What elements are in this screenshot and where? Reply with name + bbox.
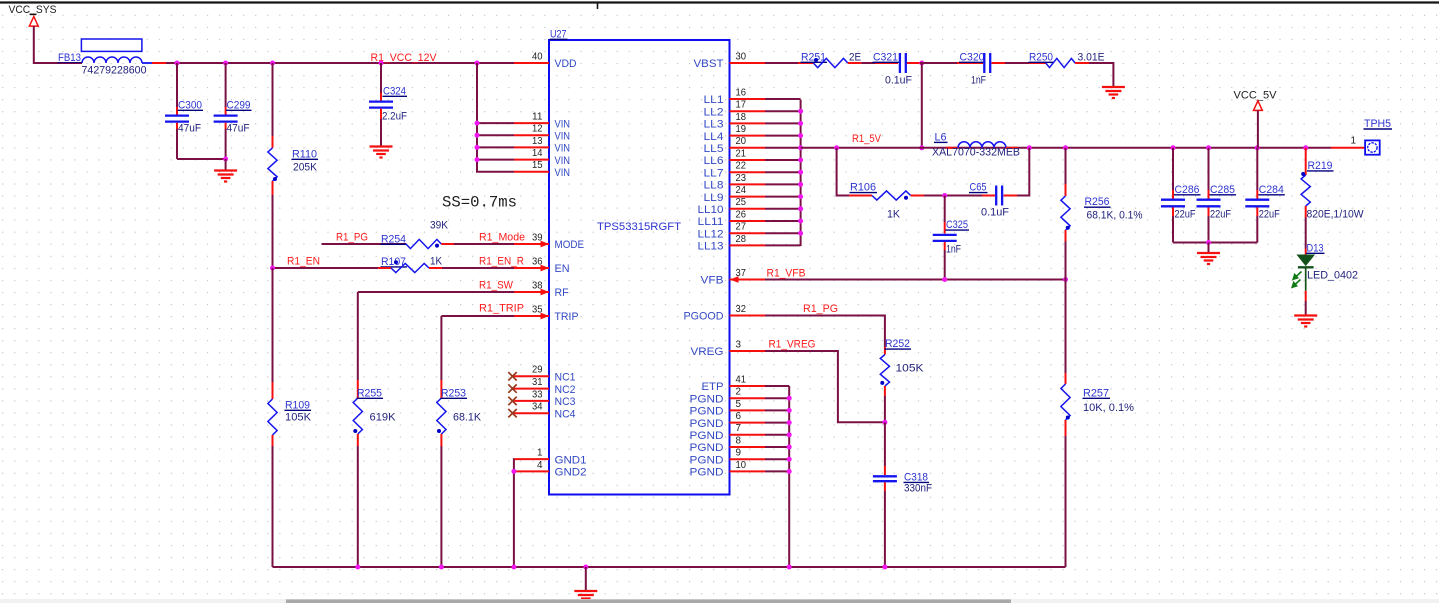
svg-text:C284: C284 <box>1259 184 1284 196</box>
svg-text:39: 39 <box>532 231 543 243</box>
wire net R1_VCC_12V <box>166 62 514 64</box>
svg-text:D13: D13 <box>1307 242 1324 254</box>
svg-text:R1_EN: R1_EN <box>287 256 320 268</box>
wire to ground <box>225 159 227 171</box>
svg-text:68.1K: 68.1K <box>453 412 482 424</box>
svg-text:LED_0402: LED_0402 <box>1307 269 1358 281</box>
wire R251 to C321 <box>861 62 875 64</box>
svg-text:LL8: LL8 <box>704 180 724 192</box>
U27 pin 27 LL12 <box>698 221 766 241</box>
svg-text:38: 38 <box>532 279 543 291</box>
junction dots output rail <box>1171 145 1176 150</box>
svg-text:LL10: LL10 <box>698 204 724 216</box>
LED emission arrows <box>1292 272 1301 288</box>
junction R1_EN at R110/R109 <box>270 266 275 271</box>
svg-text:0.1uF: 0.1uF <box>981 207 1009 219</box>
resistor R254 <box>381 220 455 249</box>
U27 pin 17 LL2 <box>704 99 766 119</box>
capacitor C318 <box>873 422 932 567</box>
U27 pin 23 LL8 <box>704 172 766 192</box>
resistor R255 <box>353 380 396 567</box>
resistor R257 <box>1061 280 1134 568</box>
svg-text:LL11: LL11 <box>698 216 724 228</box>
svg-text:R1_VREG: R1_VREG <box>769 338 816 350</box>
svg-text:1K: 1K <box>430 256 443 268</box>
junction C299 bottom <box>223 157 228 162</box>
wire VCC_SYS to FB13 <box>34 26 58 63</box>
svg-text:11: 11 <box>532 111 543 123</box>
svg-text:R250: R250 <box>1029 51 1053 63</box>
U27 pin 39 MODE <box>514 231 584 251</box>
svg-text:29: 29 <box>532 364 543 376</box>
junction R256 top <box>1063 145 1068 150</box>
svg-text:1nF: 1nF <box>971 75 986 87</box>
ferrite bead FB13 <box>58 39 167 77</box>
svg-text:LL9: LL9 <box>704 192 724 204</box>
U27 pin 1 GND1 <box>514 447 587 467</box>
junction C325 bottom <box>942 277 947 282</box>
svg-text:7: 7 <box>736 422 742 434</box>
wire GND1/GND2 to bottom rail <box>513 459 515 567</box>
svg-text:R1_VFB: R1_VFB <box>767 268 806 280</box>
U27 pin 16 LL1 <box>704 86 766 106</box>
svg-text:U27: U27 <box>550 28 567 40</box>
wire net R1_PG <box>765 316 885 348</box>
svg-text:VIN: VIN <box>555 167 571 179</box>
svg-text:R1_PG: R1_PG <box>336 232 368 244</box>
svg-text:36: 36 <box>532 255 543 267</box>
U27 pin 11 VIN <box>514 111 570 131</box>
ground under output caps <box>1197 253 1220 264</box>
wire net R1_VREG <box>765 351 885 422</box>
U27 pin 40 VDD <box>514 50 577 70</box>
capacitor C325 <box>933 196 969 279</box>
svg-text:C299: C299 <box>227 99 251 111</box>
svg-text:74279228600: 74279228600 <box>82 65 147 77</box>
svg-text:33: 33 <box>532 388 543 400</box>
svg-text:330nF: 330nF <box>904 483 932 495</box>
svg-text:28: 28 <box>736 233 747 245</box>
svg-text:C285: C285 <box>1210 184 1235 196</box>
wire net R1_TRIP horizontal <box>441 315 514 317</box>
svg-text:VFB: VFB <box>701 275 724 287</box>
svg-text:18: 18 <box>736 111 747 123</box>
svg-text:PGND: PGND <box>690 393 724 405</box>
U27 pin 7 PGND <box>690 422 766 442</box>
U27 pin 22 LL7 <box>704 160 766 180</box>
junction dots bottom rail <box>355 565 360 570</box>
svg-text:VREG: VREG <box>691 346 724 358</box>
wire junction to C320 <box>920 62 957 64</box>
wire net R1_SW horizontal <box>358 291 514 293</box>
svg-text:105K: 105K <box>896 363 925 375</box>
capacitor C286 <box>1161 148 1201 243</box>
resistor R250 <box>1029 51 1105 67</box>
wire net R1_Mode <box>454 243 514 245</box>
resistor R219 <box>1301 148 1364 249</box>
svg-text:C65: C65 <box>970 182 987 194</box>
U27 pin 29 NC1 <box>513 364 576 384</box>
wire to ground <box>1208 243 1210 254</box>
U27 pin 35 TRIP <box>514 303 579 323</box>
svg-text:SS=0.7ms: SS=0.7ms <box>442 194 517 212</box>
svg-text:40: 40 <box>532 50 543 62</box>
wire C300/C299 bottoms <box>177 158 226 160</box>
svg-text:R1_EN_R: R1_EN_R <box>479 256 524 268</box>
wire VBST to R251 <box>765 62 798 64</box>
capacitor C299 <box>214 63 252 159</box>
U27 pin 20 LL5 <box>704 135 766 155</box>
svg-text:105K: 105K <box>285 412 312 424</box>
svg-text:LL2: LL2 <box>704 106 724 118</box>
U27 pin 33 NC3 <box>513 388 576 408</box>
top window border line <box>0 1 1439 3</box>
wire R106 to C65 <box>924 195 982 197</box>
U27 pin 2 PGND <box>690 386 766 406</box>
svg-text:VIN: VIN <box>555 155 571 167</box>
U27 pin 24 LL9 <box>704 184 766 204</box>
svg-text:39K: 39K <box>430 220 449 232</box>
junction R1_5V / R106 branch <box>834 145 839 150</box>
svg-text:R1_PG: R1_PG <box>803 303 838 315</box>
svg-text:VIN: VIN <box>555 130 571 142</box>
svg-text:619K: 619K <box>370 412 397 424</box>
svg-text:820E,1/10W: 820E,1/10W <box>1307 208 1365 220</box>
U27 pin 21 LL6 <box>704 147 766 167</box>
wire bottom ground rail <box>273 566 1066 568</box>
svg-text:XAL7070-332MEB: XAL7070-332MEB <box>932 147 1020 159</box>
svg-text:4: 4 <box>537 459 543 471</box>
svg-text:LL12: LL12 <box>698 228 724 240</box>
svg-text:MODE: MODE <box>555 239 585 251</box>
svg-text:R255: R255 <box>357 387 382 399</box>
svg-text:R110: R110 <box>292 148 317 160</box>
power port VCC_5V <box>1234 89 1278 148</box>
wire LED to ground <box>1305 301 1307 316</box>
U27 pin 9 PGND <box>690 447 766 467</box>
svg-text:15: 15 <box>532 159 543 171</box>
U27 pin 5 PGND <box>690 398 766 418</box>
svg-text:TPH5: TPH5 <box>1364 118 1391 130</box>
svg-text:LL4: LL4 <box>704 131 724 143</box>
junction R252/VREG/C318 <box>882 420 887 425</box>
svg-text:17: 17 <box>736 99 747 111</box>
wire LL pin bus <box>800 100 802 246</box>
U27 pin 19 LL4 <box>704 123 766 143</box>
svg-text:2: 2 <box>736 386 742 398</box>
capacitor C285 <box>1197 148 1237 243</box>
horizontal scrollbar <box>0 599 1439 603</box>
svg-text:TRIP: TRIP <box>555 311 579 323</box>
resistor R251 <box>798 51 861 67</box>
resistor R110 <box>268 63 318 268</box>
wire LED cathode lead <box>1305 291 1307 301</box>
svg-text:3: 3 <box>736 338 742 350</box>
capacitor C65 <box>969 182 1017 219</box>
U27 pin 32 PGOOD <box>684 303 766 323</box>
capacitor C300 <box>165 63 203 159</box>
svg-text:PGND: PGND <box>690 418 724 430</box>
svg-text:R257: R257 <box>1083 387 1109 399</box>
svg-text:30: 30 <box>736 50 747 62</box>
resistor R256 <box>1061 148 1143 280</box>
svg-text:1: 1 <box>537 447 543 459</box>
U27 pin 18 LL3 <box>704 111 766 131</box>
svg-text:3.01E: 3.01E <box>1078 51 1105 63</box>
svg-text:L6: L6 <box>935 131 947 143</box>
svg-text:LL1: LL1 <box>704 94 724 106</box>
wire down to R106 <box>837 148 849 196</box>
U27 pin 13 VIN <box>514 135 570 155</box>
svg-text:LL3: LL3 <box>704 119 724 131</box>
svg-text:R252: R252 <box>885 338 910 350</box>
svg-text:C321: C321 <box>873 51 898 63</box>
svg-text:13: 13 <box>532 135 543 147</box>
svg-text:2.2uF: 2.2uF <box>382 111 407 123</box>
U27 pin 28 LL13 <box>698 233 766 253</box>
svg-text:R253: R253 <box>441 387 466 399</box>
svg-text:FB13: FB13 <box>58 52 81 64</box>
svg-text:14: 14 <box>532 147 543 159</box>
svg-text:16: 16 <box>736 86 747 98</box>
wire net R1_PG to R254 <box>322 243 407 245</box>
U27 pin 12 VIN <box>514 123 570 143</box>
svg-text:R1_5V: R1_5V <box>852 133 882 145</box>
svg-text:VIN: VIN <box>555 143 571 155</box>
power port VCC_SYS <box>9 4 57 26</box>
svg-text:NC3: NC3 <box>555 396 576 408</box>
wire R1_SW down to R255 <box>357 292 359 380</box>
svg-text:R256: R256 <box>1085 196 1110 208</box>
ground under C324 <box>370 147 393 158</box>
svg-text:1K: 1K <box>887 208 901 220</box>
wire cap bottoms <box>1173 242 1257 244</box>
junction dots PGND bus <box>787 396 792 401</box>
svg-text:LL13: LL13 <box>698 241 724 253</box>
junction R256/R257 <box>1063 277 1068 282</box>
svg-text:26: 26 <box>736 208 747 220</box>
capacitor C324 <box>369 63 407 147</box>
svg-text:C318: C318 <box>904 471 928 483</box>
U27 pin 38 RF <box>514 279 569 299</box>
svg-text:41: 41 <box>736 373 747 385</box>
svg-text:PGND: PGND <box>690 454 724 466</box>
inductor L6 <box>932 131 1020 158</box>
svg-text:8: 8 <box>736 434 742 446</box>
wire net R1_VFB <box>765 279 1066 281</box>
svg-text:22uF: 22uF <box>1210 208 1231 220</box>
svg-text:22uF: 22uF <box>1259 208 1280 220</box>
U27 pin 34 NC4 <box>513 401 576 421</box>
capacitor C284 <box>1245 148 1285 243</box>
svg-text:12: 12 <box>532 123 543 135</box>
junction tap at R1_5V rail <box>919 145 924 150</box>
resistor R107 <box>378 256 443 273</box>
junction dots on VCC_12V rail <box>175 61 180 66</box>
svg-text:68.1K, 0.1%: 68.1K, 0.1% <box>1087 210 1143 222</box>
svg-text:20: 20 <box>736 135 747 147</box>
wire net R1_EN_R <box>442 267 514 269</box>
wire VIN feed bus <box>477 63 514 172</box>
svg-text:VIN: VIN <box>555 118 571 130</box>
svg-text:R1_Mode: R1_Mode <box>479 232 525 244</box>
U27 pin 10 PGND <box>690 459 766 479</box>
svg-text:21: 21 <box>736 147 747 159</box>
svg-text:22: 22 <box>736 160 747 172</box>
svg-text:47uF: 47uF <box>178 123 201 135</box>
svg-text:47uF: 47uF <box>227 123 250 135</box>
svg-text:R251: R251 <box>801 51 826 63</box>
svg-text:25: 25 <box>736 196 747 208</box>
svg-text:VBST: VBST <box>694 58 724 70</box>
svg-text:10: 10 <box>736 459 747 471</box>
U27 pin 36 EN <box>514 255 570 275</box>
wire R1_TRIP down to R253 <box>440 316 442 380</box>
junction dots LL bus <box>798 109 803 114</box>
ground under LED <box>1294 316 1317 327</box>
junction GND2 <box>511 469 516 474</box>
svg-text:1: 1 <box>1351 135 1357 147</box>
junction L6 out / C65 riser <box>1027 145 1032 150</box>
svg-text:19: 19 <box>736 123 747 135</box>
svg-text:6: 6 <box>736 410 742 422</box>
wire net R1_EN <box>273 267 379 269</box>
svg-text:31: 31 <box>532 376 543 388</box>
U27 pin 6 PGND <box>690 410 766 430</box>
LED D13 <box>1292 242 1358 290</box>
svg-text:GND2: GND2 <box>555 467 587 479</box>
wire ETP/PGND bus <box>788 386 790 567</box>
svg-text:34: 34 <box>532 401 543 413</box>
resistor R106 <box>849 182 924 221</box>
svg-text:LL7: LL7 <box>704 167 724 179</box>
U27 pin 37 VFB <box>701 267 766 287</box>
wire tap down to R1_5V rail <box>921 63 923 148</box>
wire C320 to R250 <box>1005 62 1029 64</box>
junction C325 tap <box>942 193 947 198</box>
U27 pin 26 LL11 <box>698 208 766 228</box>
junction cap bottom rail <box>1206 240 1211 245</box>
U27 pin 14 VIN <box>514 147 570 167</box>
test point TPH5 <box>1331 118 1392 155</box>
U27 pin 25 LL10 <box>698 196 766 216</box>
ground under C299 <box>214 171 237 182</box>
svg-text:R219: R219 <box>1308 160 1333 172</box>
wire R250 to ground <box>1089 63 1113 87</box>
svg-text:VCC_5V: VCC_5V <box>1234 89 1278 101</box>
svg-text:22uF: 22uF <box>1175 208 1196 220</box>
svg-text:C324: C324 <box>383 85 406 97</box>
svg-text:R109: R109 <box>285 399 310 411</box>
svg-text:37: 37 <box>736 267 747 279</box>
junction dots VIN bus <box>475 121 480 126</box>
wire net R1_5V rail <box>801 147 1331 149</box>
svg-text:24: 24 <box>736 184 747 196</box>
U27 pin 31 NC2 <box>513 376 576 396</box>
svg-text:GND1: GND1 <box>555 454 587 466</box>
svg-text:R106: R106 <box>850 182 876 194</box>
capacitor C320 <box>957 51 1005 86</box>
ground after R250 <box>1102 87 1125 98</box>
svg-text:205K: 205K <box>293 162 318 174</box>
svg-text:LL5: LL5 <box>704 143 724 155</box>
svg-text:C320: C320 <box>960 51 985 63</box>
junction C321/C320 tap <box>919 61 924 66</box>
svg-text:NC4: NC4 <box>555 408 576 420</box>
U27 pin 8 PGND <box>690 434 766 454</box>
resistor R253 <box>437 380 482 567</box>
svg-text:R1_SW: R1_SW <box>479 280 514 292</box>
svg-text:2E: 2E <box>849 51 861 63</box>
svg-text:EN: EN <box>555 263 570 275</box>
U27 pin 41 ETP <box>702 373 766 393</box>
capacitor C321 <box>873 51 921 86</box>
svg-text:TPS53315RGFT: TPS53315RGFT <box>597 221 681 233</box>
svg-text:ETP: ETP <box>702 381 724 393</box>
svg-text:1nF: 1nF <box>946 243 961 255</box>
svg-text:PGOOD: PGOOD <box>684 311 724 323</box>
svg-text:NC2: NC2 <box>555 384 576 396</box>
svg-text:PGND: PGND <box>690 467 724 479</box>
U27 pin 3 VREG <box>691 338 766 358</box>
svg-text:0.1uF: 0.1uF <box>885 75 912 87</box>
svg-text:R254: R254 <box>381 233 406 245</box>
svg-text:RF: RF <box>555 287 569 299</box>
svg-text:9: 9 <box>736 447 742 459</box>
svg-text:PGND: PGND <box>690 430 724 442</box>
U27 pin 15 VIN <box>514 159 570 179</box>
resistor R109 <box>268 268 312 567</box>
op-amp/regulator IC U27 body <box>549 40 730 495</box>
svg-text:27: 27 <box>736 221 747 233</box>
svg-text:23: 23 <box>736 172 747 184</box>
svg-text:35: 35 <box>532 303 543 315</box>
svg-text:NC1: NC1 <box>555 372 576 384</box>
svg-text:PGND: PGND <box>690 406 724 418</box>
U27 pin 4 GND2 <box>514 459 587 479</box>
svg-text:32: 32 <box>736 303 747 315</box>
wire C65 up to R1_5V <box>1017 148 1029 196</box>
wire to bottom ground <box>585 567 587 591</box>
svg-text:R1_TRIP: R1_TRIP <box>479 303 524 315</box>
svg-text:VDD: VDD <box>555 58 577 70</box>
svg-text:C286: C286 <box>1175 184 1200 196</box>
svg-text:5: 5 <box>736 398 742 410</box>
U27 pin 30 VBST <box>694 50 766 70</box>
svg-text:C325: C325 <box>946 219 968 231</box>
ground bottom center <box>574 591 597 602</box>
svg-text:10K, 0.1%: 10K, 0.1% <box>1083 402 1134 414</box>
svg-text:PGND: PGND <box>690 442 724 454</box>
resistor R252 <box>880 338 924 422</box>
svg-text:LL6: LL6 <box>704 155 724 167</box>
svg-text:C300: C300 <box>178 99 202 111</box>
